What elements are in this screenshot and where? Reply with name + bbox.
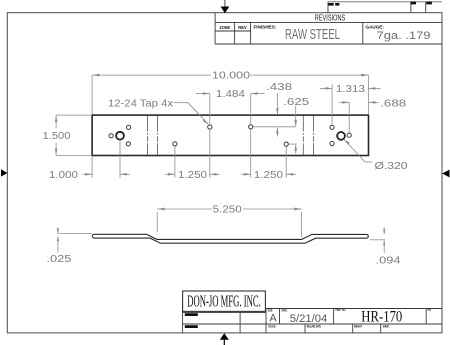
svg-text:A: A <box>269 313 277 325</box>
small hole left-SE <box>126 142 130 146</box>
dimension 10.000 <box>92 71 368 82</box>
svg-text:SCALE: SCALE <box>268 325 275 329</box>
extension line hole 250.7 up/down <box>250 94 252 125</box>
small hole right-N <box>330 125 334 129</box>
dimension .025 <box>46 227 92 265</box>
svg-text:.025: .025 <box>46 254 72 265</box>
svg-text:1.484: 1.484 <box>216 89 246 100</box>
svg-text:1.313: 1.313 <box>336 84 366 95</box>
svg-text:1.250: 1.250 <box>254 170 284 181</box>
small hole left-west <box>109 134 113 138</box>
plate outline <box>92 115 368 155</box>
revisions table cut-off header above border <box>328 2 442 13</box>
left section grid <box>182 311 184 333</box>
svg-text:Ø.320: Ø.320 <box>375 161 409 172</box>
hole mid lower-right <box>284 142 288 146</box>
dimension 1.313 <box>320 84 381 95</box>
svg-text:1.000: 1.000 <box>49 170 79 181</box>
bottom row dividers <box>304 324 306 333</box>
big hole right <box>337 132 345 140</box>
svg-text:.438: .438 <box>266 82 293 93</box>
svg-text:DON-JO MFG. INC.: DON-JO MFG. INC. <box>187 292 261 311</box>
big hole left <box>116 132 124 140</box>
dimension 1.500 <box>43 115 93 155</box>
dimension .688 <box>339 99 407 110</box>
extension line tap hole up/down <box>209 94 211 125</box>
hole mid lower-left <box>173 142 177 146</box>
hole mid upper-right <box>249 125 253 129</box>
label dia .320 with leader <box>344 139 408 172</box>
side profile outline <box>92 234 368 243</box>
label 12-24 Tap 4x with leader <box>108 98 209 124</box>
svg-text:1.500: 1.500 <box>43 131 71 142</box>
svg-text:1.250: 1.250 <box>178 170 208 181</box>
dimension .094 <box>370 228 401 267</box>
tap hole mid upper-left <box>208 125 212 129</box>
dimension 1.000 <box>49 170 130 181</box>
small hole right-E <box>347 133 351 137</box>
hole row extension line (lower) <box>289 143 297 145</box>
hole row extension line (upper) <box>253 126 296 128</box>
extension line left edge <box>91 75 93 114</box>
dimension .625 <box>283 97 310 154</box>
left fold mark <box>1 169 7 176</box>
dimension .438 <box>266 82 293 136</box>
svg-text:.688: .688 <box>380 99 407 110</box>
right fold mark <box>442 170 449 178</box>
bottom fold mark <box>220 333 229 345</box>
svg-text:ZONE: ZONE <box>220 25 231 30</box>
svg-text:5/21/04: 5/21/04 <box>290 313 328 325</box>
svg-text:FINISHES:: FINISHES: <box>254 25 277 30</box>
svg-text:12-24 Tap 4x: 12-24 Tap 4x <box>108 98 173 109</box>
svg-text:HR-170: HR-170 <box>361 308 402 325</box>
svg-text:10.000: 10.000 <box>212 71 251 82</box>
svg-text:.094: .094 <box>376 256 402 267</box>
company name box <box>183 291 266 311</box>
extension line hole 332.1 up <box>331 84 333 125</box>
small hole left-NE <box>127 125 131 129</box>
svg-text:REV: REV <box>428 308 432 312</box>
tiny labels <box>185 313 198 316</box>
svg-text:RAW STEEL: RAW STEEL <box>285 27 340 43</box>
dimension 5.250 <box>157 205 301 237</box>
svg-text:PART NO.: PART NO. <box>336 308 347 312</box>
extension line hole 174.9 down <box>174 146 176 177</box>
extension line big hole down <box>119 140 121 177</box>
svg-text:RELEASE DATE: RELEASE DATE <box>307 325 321 329</box>
extension line hole 349.2 up <box>348 102 350 132</box>
svg-text:REVISIONS: REVISIONS <box>315 14 346 23</box>
svg-text:.625: .625 <box>283 97 310 108</box>
right section top <box>266 308 442 310</box>
bend line 4 <box>312 116 314 156</box>
svg-text:GAUGE:: GAUGE: <box>366 25 385 30</box>
svg-text:7ga. .179: 7ga. .179 <box>377 30 431 42</box>
dimension 1.484 <box>196 89 265 100</box>
bend line 1 <box>147 116 149 156</box>
bend line 3 <box>302 116 304 156</box>
extension line hole 286.2 down <box>285 147 287 178</box>
top center fold mark <box>221 0 230 13</box>
dimension 1.250 left <box>165 170 220 181</box>
svg-text:REV: REV <box>238 25 247 30</box>
svg-text:5.250: 5.250 <box>213 205 243 216</box>
bend line 2 <box>157 116 159 156</box>
svg-text:DATE:: DATE: <box>282 308 288 312</box>
extension line right edge <box>368 75 370 114</box>
revisions table <box>215 13 442 44</box>
dimension 1.250 right <box>241 170 296 181</box>
small hole right-S <box>330 141 334 145</box>
